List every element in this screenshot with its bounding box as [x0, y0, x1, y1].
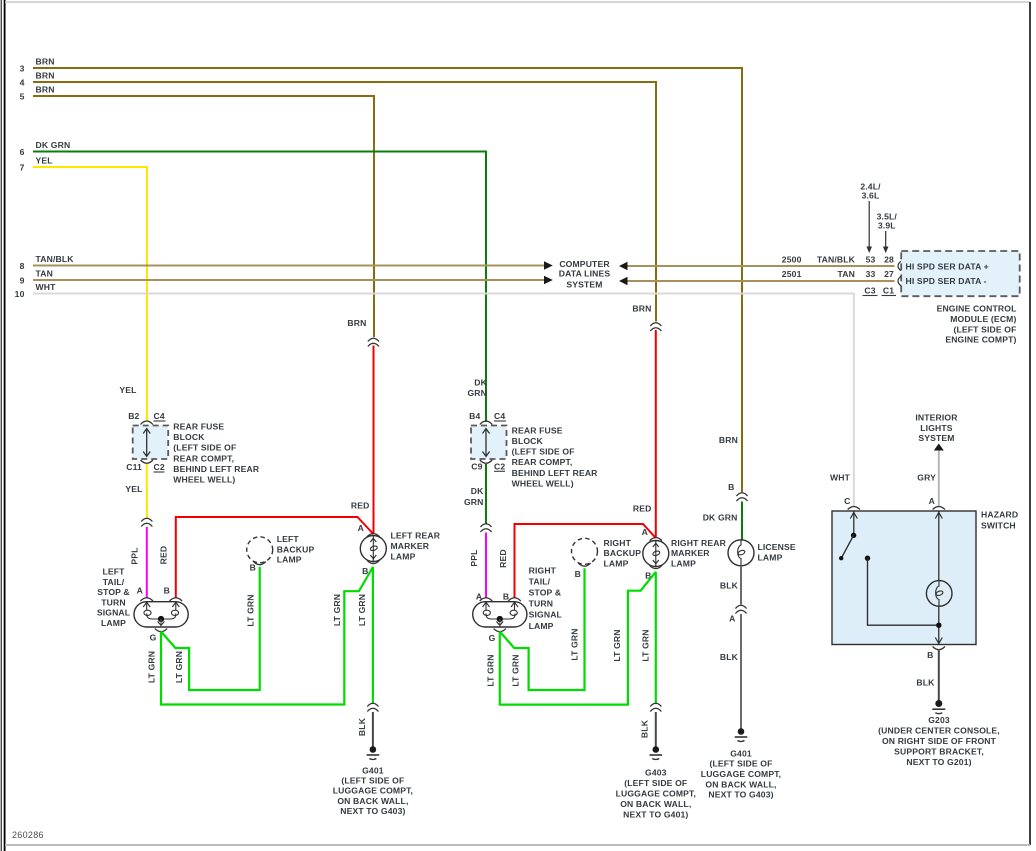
wire 9 TAN 2501 (computer data lines / ECM pin 33-27) — [20, 269, 895, 286]
svg-text:G: G — [150, 633, 157, 643]
wire LT GRN (left tail G to left backup B) — [161, 567, 260, 690]
svg-text:HAZARD: HAZARD — [981, 509, 1018, 519]
pin B2 / connector C4 (left fuse block top) — [128, 411, 165, 425]
svg-text:LAMP: LAMP — [277, 555, 302, 565]
svg-text:A: A — [929, 496, 935, 506]
svg-text:DK GRN: DK GRN — [703, 513, 738, 523]
wire LT GRN (left tail G to left rear marker B) — [147, 567, 373, 705]
lamp E4: right tail/stop & turn signal lamp — [473, 592, 527, 644]
fuse block F2: right rear fuse block — [471, 426, 507, 460]
svg-text:RIGHT REAR: RIGHT REAR — [671, 538, 727, 548]
label: right rear marker lamp name — [671, 538, 727, 569]
ground G403 — [650, 746, 663, 759]
svg-text:BLK: BLK — [720, 581, 739, 591]
svg-text:GRN: GRN — [464, 497, 484, 507]
svg-text:ON BACK WALL,: ON BACK WALL, — [705, 779, 776, 789]
label: ground G401 location (left) — [333, 766, 413, 816]
connector: inline splice on left PPL drop — [141, 518, 152, 526]
svg-text:(LEFT SIDE OF: (LEFT SIDE OF — [624, 778, 687, 788]
svg-text:BLOCK: BLOCK — [512, 436, 544, 446]
lamp E3: left rear marker lamp — [358, 523, 387, 576]
svg-text:SYSTEM: SYSTEM — [918, 433, 954, 443]
svg-text:C3: C3 — [864, 286, 875, 296]
node: interior lights system arrow — [915, 413, 958, 451]
svg-text:NEXT TO G401): NEXT TO G401) — [623, 810, 688, 820]
svg-text:LAMP: LAMP — [101, 618, 126, 628]
connector: inline splice BRN/DK GRN (license drop, pin B) — [728, 482, 747, 501]
svg-text:260286: 260286 — [12, 830, 44, 840]
lamp E5: right backup lamp (dashed circle) — [572, 538, 598, 579]
wire RED (left tail lamp B to left rear marker A) — [159, 501, 374, 598]
svg-text:LT GRN: LT GRN — [245, 594, 255, 626]
op: engine variant callout 2.4L/3.6L with arrow to pin 53 — [860, 181, 881, 253]
svg-text:HI SPD SER DATA -: HI SPD SER DATA - — [906, 276, 987, 286]
svg-text:SWITCH: SWITCH — [981, 521, 1016, 531]
svg-text:BLK: BLK — [640, 719, 650, 738]
svg-text:MODULE (ECM): MODULE (ECM) — [950, 314, 1016, 324]
svg-text:SYSTEM: SYSTEM — [566, 279, 602, 289]
svg-text:LT GRN: LT GRN — [357, 594, 367, 626]
svg-text:STOP &: STOP & — [529, 588, 562, 598]
label: circuit 2500 TAN/BLK pins 53 28 — [782, 255, 894, 265]
svg-text:G: G — [489, 633, 496, 643]
label: circuit 2501 TAN pins 33 27 — [782, 269, 894, 279]
wire 7 YEL (to left rear fuse block B2) — [20, 156, 147, 421]
label: left rear marker lamp name — [391, 531, 441, 562]
wire RED (BRN splice down to right rear marker A) — [655, 330, 657, 538]
svg-text:A: A — [358, 523, 364, 533]
switch S1: hazard switch box — [832, 507, 976, 645]
svg-text:ON RIGHT SIDE OF FRONT: ON RIGHT SIDE OF FRONT — [882, 736, 997, 746]
svg-text:2500: 2500 — [782, 255, 802, 265]
svg-text:LT GRN: LT GRN — [511, 654, 521, 686]
svg-text:A: A — [729, 614, 735, 624]
svg-text:B: B — [164, 586, 170, 596]
svg-text:3.6L: 3.6L — [862, 190, 880, 200]
fuse block F1: left rear fuse block — [133, 426, 169, 460]
svg-text:YEL: YEL — [125, 484, 142, 494]
svg-text:RED: RED — [159, 546, 169, 565]
SEG:FRAME — [0, 0, 2, 851]
svg-text:ENGINE CONTROL: ENGINE CONTROL — [937, 304, 1017, 314]
svg-text:8: 8 — [20, 261, 25, 271]
svg-text:LAMP: LAMP — [671, 558, 696, 568]
wire 3 BRN (circuit row 3, to license lamp drop) — [20, 57, 742, 493]
pin C9 / connector C2 (right fuse block bottom) — [471, 460, 505, 471]
wire BLK (hazard switch B to ground G203) — [916, 649, 938, 701]
svg-text:5: 5 — [20, 92, 25, 102]
ground G401 (left rear) — [367, 746, 380, 759]
lamp E1: left tail/stop & turn signal lamp — [134, 586, 188, 643]
svg-text:53: 53 — [866, 255, 876, 265]
svg-text:33: 33 — [866, 269, 876, 279]
label: right tail lamp name — [529, 565, 562, 631]
wire GRY (interior lights to hazard switch A) — [917, 451, 939, 507]
svg-text:NEXT TO G403): NEXT TO G403) — [340, 806, 405, 816]
wire PPL (connector to left tail lamp A) — [130, 527, 147, 598]
label: ground G401 location (license) — [701, 748, 781, 799]
svg-text:RIGHT: RIGHT — [604, 538, 632, 548]
svg-text:BACKUP: BACKUP — [277, 544, 315, 554]
svg-text:BRN: BRN — [632, 304, 651, 314]
svg-text:LAMP: LAMP — [529, 621, 554, 631]
svg-text:LT GRN: LT GRN — [569, 628, 579, 660]
svg-text:LEFT REAR: LEFT REAR — [391, 531, 441, 541]
svg-text:LUGGAGE COMPT,: LUGGAGE COMPT, — [333, 786, 413, 796]
svg-text:(LEFT SIDE OF: (LEFT SIDE OF — [512, 447, 575, 457]
svg-text:YEL: YEL — [36, 156, 53, 166]
pin B below hazard switch — [927, 647, 945, 661]
svg-text:MARKER: MARKER — [671, 548, 710, 558]
svg-text:ENGINE COMPT): ENGINE COMPT) — [945, 335, 1016, 345]
wire DK GRN (right fuse C9 to connector) — [464, 464, 486, 524]
svg-text:STOP &: STOP & — [97, 587, 130, 597]
svg-text:ON BACK WALL,: ON BACK WALL, — [337, 796, 408, 806]
svg-text:C1: C1 — [883, 286, 894, 296]
svg-text:BRN: BRN — [36, 71, 55, 81]
svg-text:LIGHTS: LIGHTS — [920, 423, 953, 433]
lamp E7: license lamp — [728, 540, 754, 566]
label: left rear fuse block location — [173, 422, 260, 485]
svg-text:RED: RED — [498, 549, 508, 568]
svg-text:27: 27 — [884, 269, 894, 279]
wire: internal link contact to lamp node — [865, 556, 939, 626]
svg-text:7: 7 — [20, 163, 25, 173]
label: ground G203 location — [878, 715, 1000, 767]
svg-text:DK: DK — [471, 486, 484, 496]
wire 10 WHT (to hazard switch C) — [15, 282, 854, 506]
svg-text:LT GRN: LT GRN — [640, 629, 650, 661]
svg-text:C9: C9 — [471, 461, 482, 471]
svg-text:RIGHT: RIGHT — [529, 565, 557, 575]
label: DK GRN above right fuse block — [467, 378, 487, 399]
svg-text:DATA LINES: DATA LINES — [559, 269, 611, 279]
svg-text:BRN: BRN — [719, 435, 738, 445]
svg-text:LUGGAGE COMPT,: LUGGAGE COMPT, — [701, 769, 781, 779]
wire DK GRN (splice to license lamp) — [703, 502, 742, 541]
svg-text:(LEFT SIDE OF: (LEFT SIDE OF — [953, 324, 1016, 334]
svg-text:B: B — [575, 569, 581, 579]
svg-text:(LEFT SIDE OF: (LEFT SIDE OF — [173, 443, 236, 453]
svg-text:G203: G203 — [928, 715, 950, 725]
wire 8 TAN/BLK 2500 (computer data lines / ECM pin 53-28) — [20, 254, 895, 271]
connector A: inline splice on license ground drop — [729, 605, 746, 623]
wire BLK (license lamp to connector A) — [720, 566, 741, 605]
svg-text:BLK: BLK — [720, 652, 739, 662]
wire 6 DK GRN (to right rear fuse block B4) — [20, 140, 486, 422]
svg-text:REAR FUSE: REAR FUSE — [173, 422, 224, 432]
label: right rear fuse block location — [512, 425, 599, 488]
svg-text:10: 10 — [15, 289, 25, 299]
lamp E2: left backup lamp (dashed circle) — [247, 537, 273, 573]
svg-text:G403: G403 — [645, 768, 667, 778]
svg-text:TURN: TURN — [529, 599, 553, 609]
ground G203 — [932, 700, 945, 714]
svg-text:COMPUTER: COMPUTER — [559, 259, 610, 269]
connector: inline splice BRN/RED left (wire 5) — [347, 318, 379, 347]
wire 4 BRN (circuit row 4, to right rear marker drop) — [20, 71, 656, 322]
svg-text:TURN: TURN — [101, 597, 125, 607]
wire LT GRN (right rear marker B down to splice) — [640, 572, 656, 703]
svg-text:INTERIOR: INTERIOR — [915, 413, 958, 423]
svg-text:RED: RED — [351, 501, 370, 511]
svg-text:3.9L: 3.9L — [878, 221, 896, 231]
svg-text:GRY: GRY — [917, 473, 936, 483]
wire BLK (to ground G401 left) — [357, 712, 373, 747]
connector: inline splice BRN/RED right (wire 4) — [632, 304, 661, 332]
wire RED (BRN splice down to left rear marker A) — [373, 346, 375, 535]
svg-text:LT GRN: LT GRN — [147, 651, 157, 683]
svg-text:B: B — [503, 592, 509, 602]
svg-text:A: A — [137, 586, 143, 596]
lamp: hazard switch indicator bulb — [926, 511, 952, 645]
connector: inline splice LT GRN/BLK at G401 drop — [367, 703, 378, 711]
svg-text:LAMP: LAMP — [391, 551, 416, 561]
wire LT GRN (left rear marker B down to splice) — [357, 567, 373, 703]
svg-text:LT GRN: LT GRN — [612, 629, 622, 661]
connector: inline splice LT GRN/BLK at G403 drop — [650, 703, 661, 711]
svg-text:4: 4 — [20, 78, 25, 88]
label: hazard switch name — [981, 509, 1018, 530]
svg-text:G401: G401 — [730, 748, 752, 758]
svg-text:PPL: PPL — [130, 547, 140, 564]
svg-text:TAN: TAN — [838, 269, 855, 279]
svg-text:HI SPD SER DATA +: HI SPD SER DATA + — [906, 261, 989, 271]
svg-text:BLOCK: BLOCK — [173, 432, 205, 442]
svg-text:B4: B4 — [469, 411, 480, 421]
svg-text:C11: C11 — [126, 462, 142, 472]
label: engine control module location — [937, 304, 1017, 345]
svg-text:BACKUP: BACKUP — [604, 548, 642, 558]
svg-text:LT GRN: LT GRN — [332, 594, 342, 626]
connector C3 C1 (ECM connectors) — [863, 286, 897, 296]
svg-text:NEXT TO G403): NEXT TO G403) — [708, 790, 773, 800]
lamp E6: right rear marker lamp — [642, 527, 669, 581]
svg-text:REAR COMPT,: REAR COMPT, — [173, 453, 234, 463]
label: left backup lamp name — [277, 534, 315, 565]
svg-text:B: B — [927, 650, 933, 660]
label: WHT and C at hazard switch — [830, 473, 935, 507]
svg-text:TAN/BLK: TAN/BLK — [817, 255, 856, 265]
svg-text:ON BACK WALL,: ON BACK WALL, — [620, 799, 691, 809]
svg-text:B: B — [250, 563, 256, 573]
svg-text:LEFT: LEFT — [102, 567, 125, 577]
svg-text:WHT: WHT — [36, 282, 57, 292]
svg-text:6: 6 — [20, 147, 25, 157]
pin B4 / connector C4 (right fuse block top) — [469, 411, 506, 425]
svg-text:YEL: YEL — [119, 385, 136, 395]
svg-text:TAN/BLK: TAN/BLK — [36, 254, 75, 264]
svg-text:REAR FUSE: REAR FUSE — [512, 425, 563, 435]
wire LT GRN (right tail G to right rear marker B) — [485, 572, 655, 705]
svg-text:G401: G401 — [362, 766, 384, 776]
label: license lamp name — [758, 542, 796, 563]
svg-text:BRN: BRN — [347, 318, 366, 328]
svg-text:(UNDER CENTER CONSOLE,: (UNDER CENTER CONSOLE, — [878, 726, 1000, 736]
svg-text:WHEEL WELL): WHEEL WELL) — [512, 478, 574, 488]
label: ground G403 location — [616, 768, 696, 820]
svg-text:LT GRN: LT GRN — [174, 651, 184, 683]
svg-text:C: C — [844, 496, 850, 506]
svg-text:GRN: GRN — [467, 388, 487, 398]
op: engine variant callout 3.5L/3.9L with arrow to pin 28 — [877, 212, 898, 253]
svg-text:TAN: TAN — [36, 269, 53, 279]
svg-text:LUGGAGE COMPT,: LUGGAGE COMPT, — [616, 789, 696, 799]
svg-text:BLK: BLK — [357, 717, 367, 736]
svg-text:DK: DK — [474, 378, 487, 388]
svg-text:TAIL/: TAIL/ — [103, 577, 125, 587]
svg-text:LEFT: LEFT — [277, 534, 300, 544]
wire RED (right tail lamp B to right rear marker A) — [498, 504, 656, 598]
svg-text:C2: C2 — [154, 462, 165, 472]
svg-text:PPL: PPL — [469, 549, 479, 566]
connector: inline splice on right PPL drop — [480, 524, 491, 532]
svg-text:MARKER: MARKER — [391, 541, 430, 551]
svg-text:NEXT TO G201): NEXT TO G201) — [906, 757, 971, 767]
svg-text:B: B — [728, 482, 734, 492]
svg-text:LT GRN: LT GRN — [485, 654, 495, 686]
wire 5 BRN (circuit row 5, to left rear marker drop) — [20, 85, 374, 338]
svg-text:TAIL/: TAIL/ — [529, 576, 551, 586]
svg-text:9: 9 — [20, 276, 25, 286]
svg-text:DK GRN: DK GRN — [36, 140, 71, 150]
svg-text:A: A — [642, 527, 648, 537]
wire BLK (to ground G403) — [640, 712, 656, 747]
svg-text:REAR COMPT,: REAR COMPT, — [512, 457, 573, 467]
svg-text:BRN: BRN — [36, 57, 55, 67]
svg-text:C4: C4 — [494, 411, 505, 421]
svg-text:28: 28 — [884, 255, 894, 265]
svg-text:C4: C4 — [154, 411, 165, 421]
svg-text:RED: RED — [633, 504, 652, 514]
svg-text:B2: B2 — [128, 411, 139, 421]
svg-text:LICENSE: LICENSE — [758, 542, 796, 552]
ECM U1: engine control module dashed box — [898, 251, 1020, 296]
svg-text:2501: 2501 — [782, 269, 802, 279]
wire LT GRN (right tail G to right backup B) — [500, 568, 585, 690]
svg-text:LAMP: LAMP — [758, 552, 783, 562]
svg-text:C2: C2 — [494, 461, 505, 471]
svg-text:LAMP: LAMP — [604, 558, 629, 568]
wire YEL (left fuse C11 to connector) — [125, 464, 147, 518]
svg-text:SIGNAL: SIGNAL — [529, 610, 562, 620]
wire BLK (connector A to ground G401) — [720, 614, 741, 729]
wire PPL (connector to right tail lamp A) — [469, 533, 486, 598]
svg-text:SUPPORT BRACKET,: SUPPORT BRACKET, — [894, 746, 984, 756]
svg-text:BEHIND LEFT REAR: BEHIND LEFT REAR — [173, 464, 260, 474]
svg-text:SIGNAL: SIGNAL — [97, 608, 130, 618]
svg-text:(LEFT SIDE OF: (LEFT SIDE OF — [709, 759, 772, 769]
ground G401 (license lamp) — [735, 728, 748, 741]
node: computer data lines system arrows and label — [544, 259, 628, 289]
svg-text:WHT: WHT — [830, 473, 851, 483]
svg-text:(LEFT SIDE OF: (LEFT SIDE OF — [341, 776, 404, 786]
svg-text:WHEEL WELL): WHEEL WELL) — [173, 475, 235, 485]
svg-text:BLK: BLK — [916, 678, 935, 688]
label: right backup lamp name — [604, 538, 642, 569]
svg-text:3: 3 — [20, 64, 25, 74]
pin C11 / connector C2 (left fuse block bottom) — [126, 460, 165, 472]
switch contacts inside hazard switch (C pole) — [839, 511, 857, 560]
svg-text:BEHIND LEFT REAR: BEHIND LEFT REAR — [512, 468, 599, 478]
svg-text:BRN: BRN — [36, 85, 55, 95]
label: left tail lamp name — [97, 567, 130, 629]
